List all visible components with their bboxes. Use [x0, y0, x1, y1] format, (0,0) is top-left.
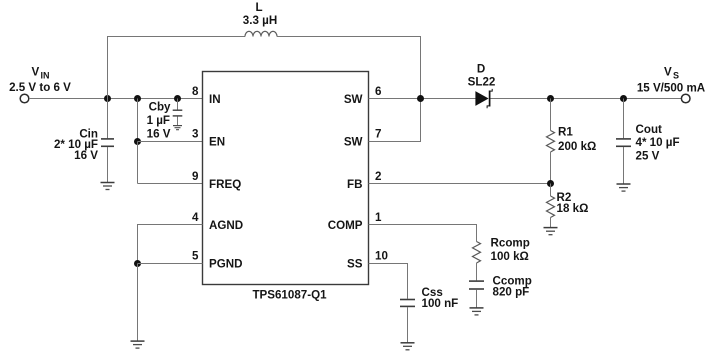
svg-text:SW: SW: [344, 93, 363, 106]
wire COMP pin 1 to Rcomp: [369, 225, 477, 242]
junction node Cby: [174, 95, 181, 102]
capacitor Ccomp 820 pF: [469, 274, 532, 307]
inductor L 3.3 uH: [243, 1, 277, 37]
wire top rail left: [107, 36, 245, 38]
diode D SL22: [468, 63, 496, 109]
junction node PGND: [134, 260, 141, 267]
ground under Cin: [101, 183, 115, 190]
svg-text:16 V: 16 V: [74, 149, 98, 162]
pin 3 EN: [192, 128, 225, 149]
junction node at Cin: [104, 95, 111, 102]
svg-text:18 kΩ: 18 kΩ: [557, 202, 589, 215]
svg-text:1 µF: 1 µF: [147, 114, 170, 127]
svg-text:V: V: [664, 66, 672, 79]
junction node SW: [417, 95, 424, 102]
svg-text:2: 2: [375, 170, 381, 183]
svg-text:TPS61087-Q1: TPS61087-Q1: [252, 289, 327, 302]
svg-text:4: 4: [192, 211, 199, 224]
resistor R2 18 kOhm: [547, 184, 589, 228]
ground PGND: [131, 341, 145, 348]
wire junction down to EN: [137, 99, 139, 142]
junction node EN: [134, 138, 141, 145]
junction node Cout: [620, 95, 627, 102]
resistor Rcomp 100 kOhm: [473, 236, 530, 280]
wire PGND pin 5: [138, 263, 203, 265]
terminal VIN: [20, 94, 29, 103]
pin 8 IN: [192, 85, 221, 106]
svg-text:3: 3: [192, 128, 199, 141]
pin 1 COMP: [328, 211, 382, 232]
svg-text:1: 1: [375, 211, 382, 224]
pin 2 FB: [347, 170, 381, 191]
svg-text:9: 9: [192, 170, 199, 183]
svg-text:COMP: COMP: [328, 219, 363, 232]
svg-text:EN: EN: [209, 136, 225, 149]
svg-text:R1: R1: [558, 125, 573, 138]
wire diode to VS: [491, 98, 682, 100]
svg-text:4* 10 µF: 4* 10 µF: [636, 136, 680, 149]
svg-text:FREQ: FREQ: [209, 178, 241, 191]
svg-text:SL22: SL22: [468, 76, 496, 89]
pin 9 FREQ: [192, 170, 241, 191]
ground under Cby: [173, 126, 182, 130]
svg-text:FB: FB: [347, 178, 362, 191]
svg-text:3.3 µH: 3.3 µH: [243, 14, 277, 27]
svg-text:AGND: AGND: [209, 219, 243, 232]
svg-text:Rcomp: Rcomp: [491, 236, 530, 249]
pin 5 PGND: [192, 250, 242, 271]
svg-text:S: S: [673, 71, 679, 81]
svg-text:IN: IN: [41, 71, 50, 81]
svg-text:5: 5: [192, 250, 199, 263]
pin 6 SW: [344, 85, 382, 106]
svg-text:SW: SW: [344, 136, 363, 149]
svg-text:D: D: [477, 63, 485, 76]
svg-text:SS: SS: [347, 258, 363, 271]
svg-text:200 kΩ: 200 kΩ: [558, 140, 596, 153]
svg-text:IN: IN: [209, 93, 221, 106]
wire FB pin 2 to divider: [369, 183, 552, 185]
wire rail down to SW pin 7: [420, 37, 422, 142]
svg-text:16 V: 16 V: [147, 128, 171, 141]
ground under R2: [544, 228, 558, 235]
wire Cin node up to inductor rail: [107, 37, 109, 99]
wire AGND pin 4: [138, 225, 203, 264]
ground under Ccomp: [470, 308, 484, 315]
junction node FB: [547, 180, 554, 187]
capacitor Cout: [616, 99, 680, 184]
label VS: [637, 66, 706, 95]
svg-text:25 V: 25 V: [636, 149, 660, 162]
svg-text:PGND: PGND: [209, 258, 243, 271]
svg-text:100 nF: 100 nF: [422, 297, 459, 310]
wire SS pin 10 to Css: [369, 264, 408, 299]
wire SW pin 7 to rail: [369, 141, 422, 143]
svg-text:15 V/500 mA: 15 V/500 mA: [637, 82, 706, 95]
capacitor Cby: [147, 99, 183, 141]
svg-text:V: V: [32, 66, 40, 79]
resistor R1 200 kOhm: [547, 99, 597, 184]
junction node IN/EN branch: [134, 95, 141, 102]
wire EN to pin 3: [138, 141, 203, 143]
svg-text:7: 7: [375, 128, 381, 141]
svg-text:2.5 V to 6 V: 2.5 V to 6 V: [9, 81, 71, 94]
wire top rail right: [277, 36, 421, 38]
svg-text:Cout: Cout: [636, 123, 663, 136]
svg-text:820 pF: 820 pF: [493, 286, 530, 299]
pin 7 SW: [344, 128, 382, 149]
pin 10 SS: [347, 250, 388, 271]
svg-text:8: 8: [192, 85, 199, 98]
wire PGND node to ground: [137, 264, 139, 341]
capacitor Css 100 nF: [400, 286, 458, 343]
svg-text:L: L: [255, 1, 262, 14]
ground under Css: [401, 343, 415, 350]
svg-text:10: 10: [375, 250, 388, 263]
svg-text:Cby: Cby: [149, 100, 171, 113]
terminal VS: [681, 94, 690, 103]
pin 4 AGND: [192, 211, 243, 232]
capacitor Cin: [54, 99, 114, 183]
IC U1 TPS61087-Q1: [203, 72, 369, 302]
wire VIN to pin 8 IN: [29, 98, 203, 100]
svg-text:100 kΩ: 100 kΩ: [491, 250, 529, 263]
wire SW pin 6 to diode: [369, 98, 477, 100]
wire EN node down to FREQ: [137, 142, 139, 184]
svg-text:6: 6: [375, 85, 382, 98]
label VIN: [9, 66, 71, 95]
wire FREQ to pin 9: [138, 183, 203, 185]
junction node R1: [547, 95, 554, 102]
ground under Cout: [617, 184, 631, 191]
